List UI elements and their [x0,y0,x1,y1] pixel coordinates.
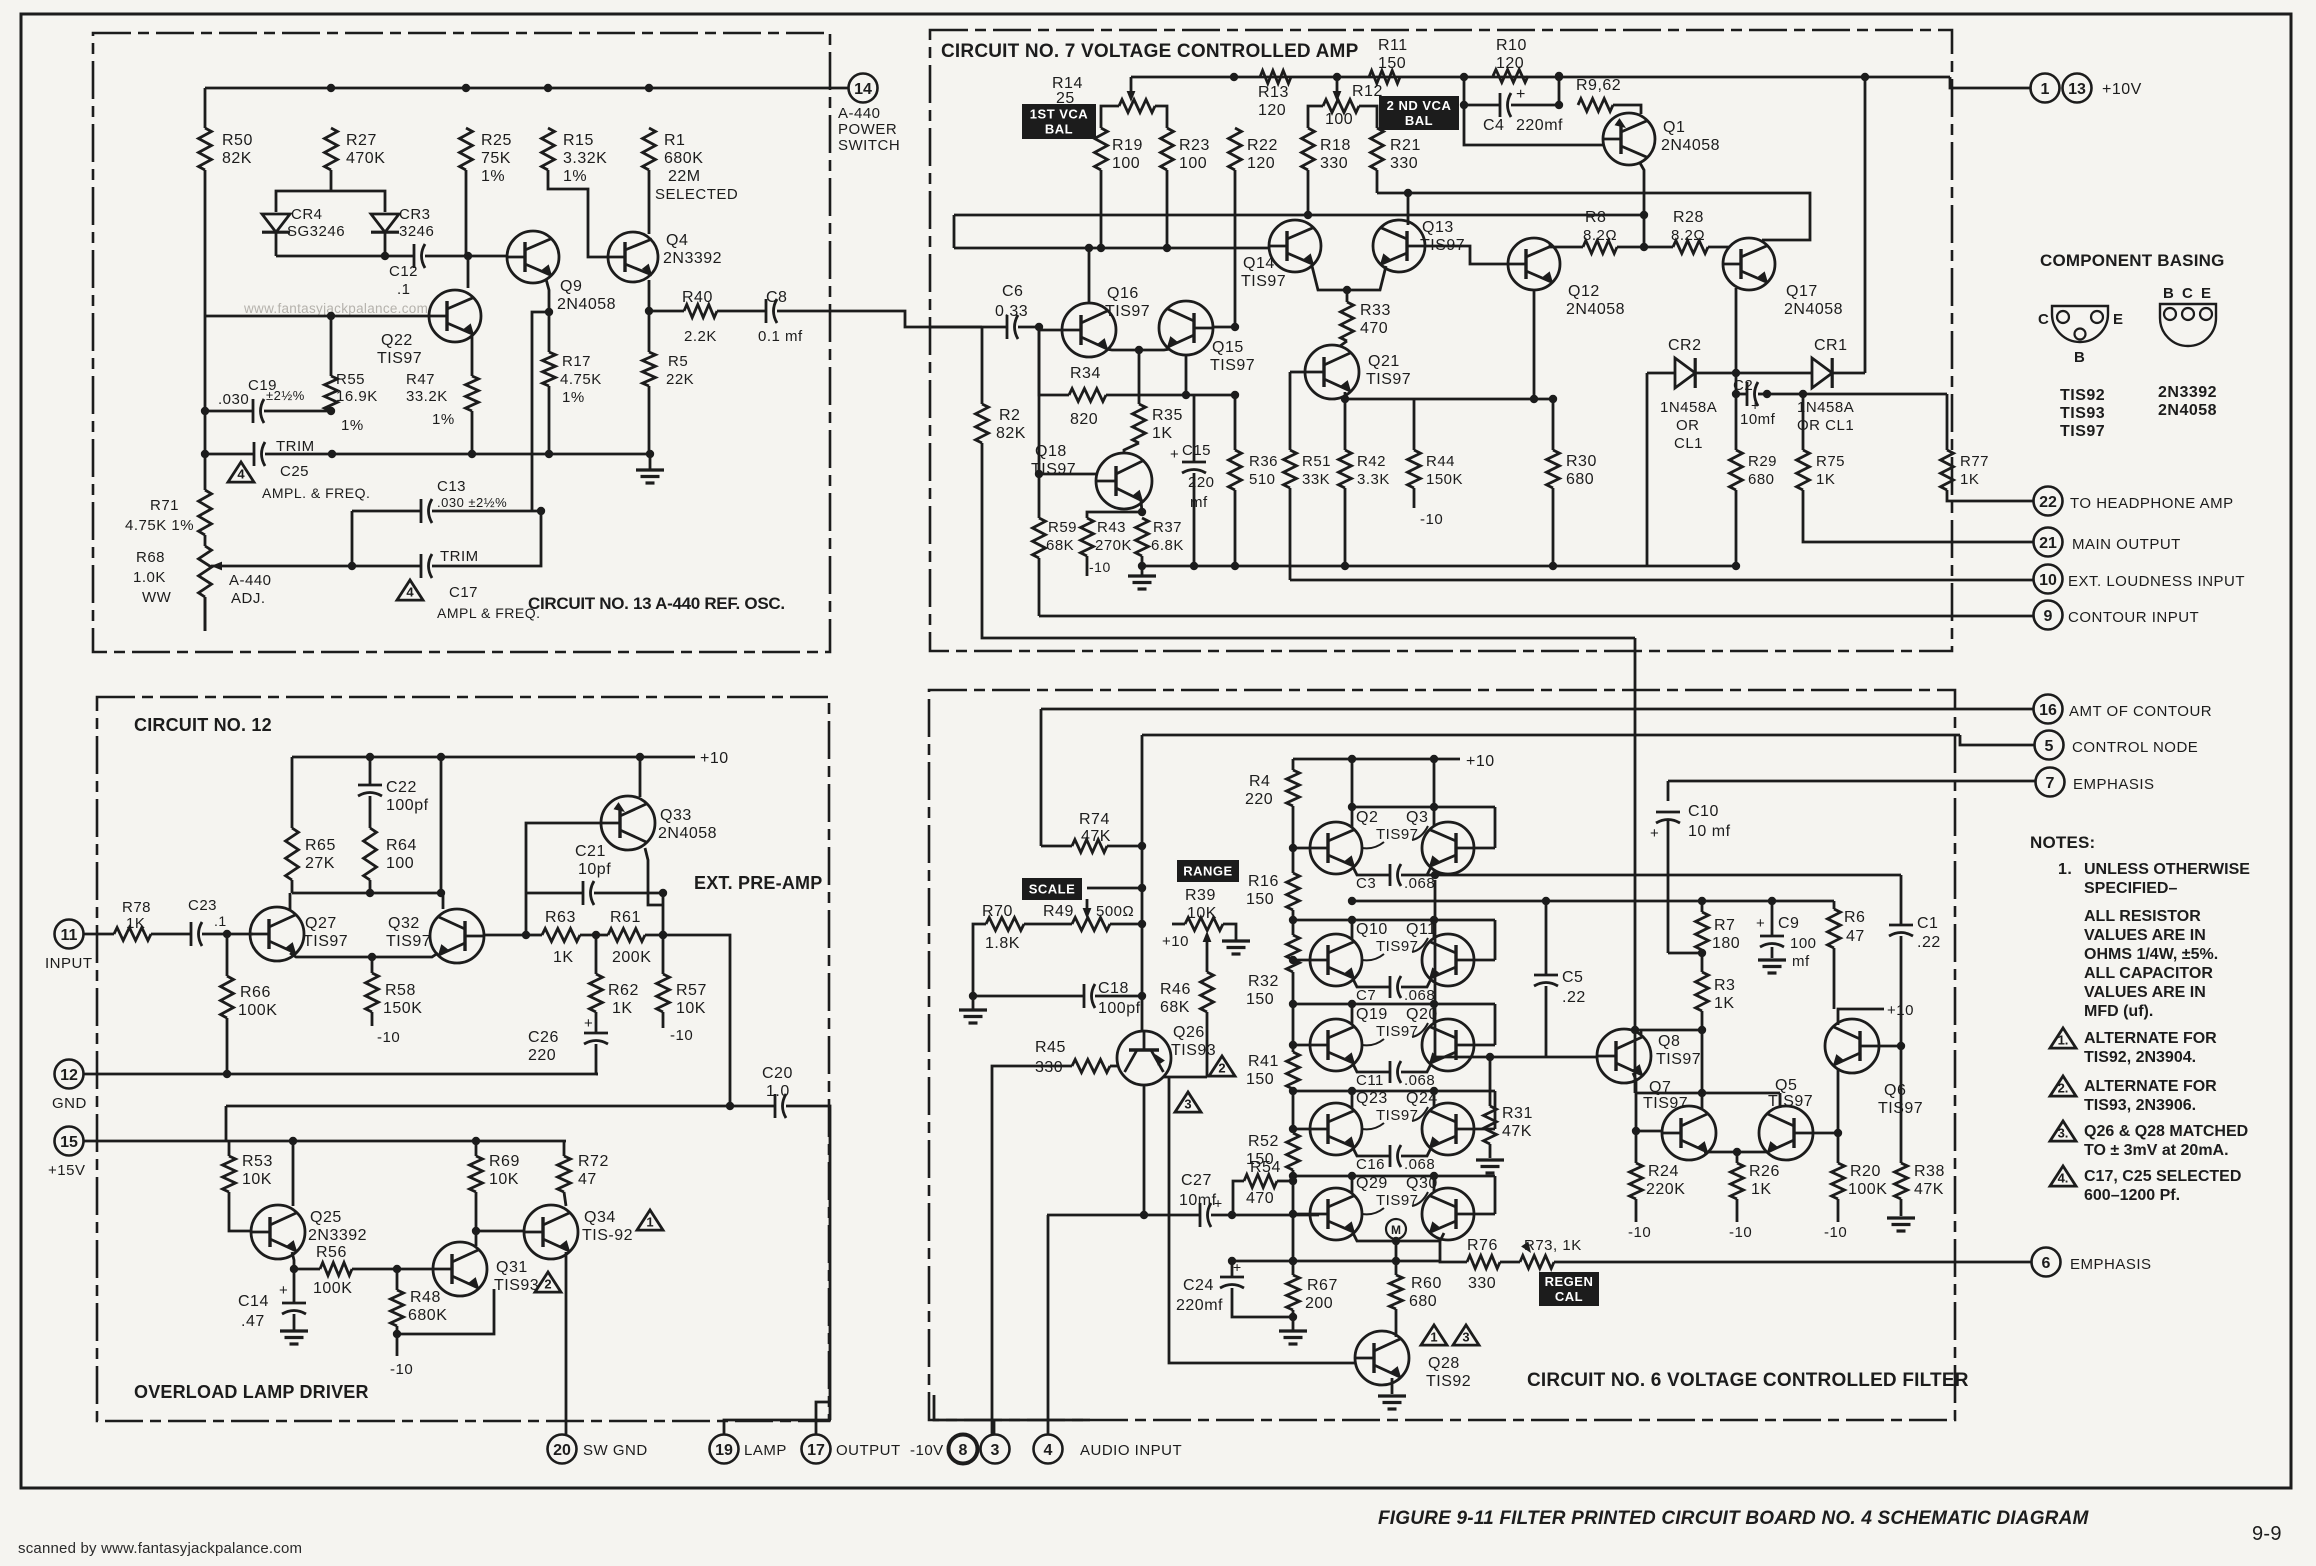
svg-text:R2: R2 [999,407,1020,424]
label RANGE [1177,860,1239,882]
wire: Q12 emitter to R30 [1533,290,1536,399]
svg-text:6.8K: 6.8K [1151,537,1184,554]
transistor Q2 [1310,822,1362,874]
svg-text:R29: R29 [1748,453,1777,470]
svg-text:R60: R60 [1411,1275,1442,1292]
svg-text:Q12: Q12 [1568,283,1600,300]
svg-text:100K: 100K [1848,1181,1887,1198]
svg-text:27K: 27K [305,855,335,872]
svg-text:R6: R6 [1844,909,1865,926]
svg-text:10mf: 10mf [1740,411,1776,428]
svg-text:10mf: 10mf [1179,1192,1217,1209]
svg-text:CONTROL NODE: CONTROL NODE [2072,739,2198,756]
wire: tie rail for Q23/Q24 row [1293,1090,1495,1093]
svg-text:EMPHASIS: EMPHASIS [2073,776,2155,793]
resistor R24 [1635,1131,1638,1163]
svg-text:68K: 68K [1046,537,1074,554]
wire: contour y616 to terminal 9 [1039,615,2033,618]
transistor Q29 [1310,1188,1362,1240]
svg-text:R17: R17 [562,353,591,370]
svg-text:CIRCUIT NO. 6 VOLTAGE CONTROLL: CIRCUIT NO. 6 VOLTAGE CONTROLLED FILTER [1527,1370,1969,1391]
capacitor C17 TRIM [352,565,421,568]
svg-text:R24: R24 [1648,1163,1679,1180]
svg-text:SPECIFIED–: SPECIFIED– [2084,880,2177,897]
wire: contour into R74 [1040,709,1043,846]
resistor R58 [371,957,374,973]
resistor R23 [1161,128,1174,170]
resistor R1 [643,128,656,170]
wire: Q33 base to R63 node [526,823,601,935]
svg-text:2N3392: 2N3392 [308,1227,367,1244]
wire: R27 to diode pair box [330,170,333,191]
wire: R65/R64 bottom tie to Q32 collector [292,892,443,895]
terminal 11 input [55,920,84,949]
svg-text:R42: R42 [1357,453,1386,470]
wire: Q25 collector to +15 rail [292,1141,295,1206]
svg-text:220K: 220K [1646,1181,1685,1198]
svg-text:TO ± 3mV at 20mA.: TO ± 3mV at 20mA. [2084,1142,2229,1159]
svg-text:R11: R11 [1378,37,1408,54]
svg-text:TIS97: TIS97 [1241,273,1286,290]
svg-text:R4: R4 [1249,773,1270,790]
svg-text:Q2: Q2 [1356,809,1378,826]
svg-text:C20: C20 [762,1065,793,1082]
svg-text:Q28: Q28 [1428,1355,1460,1372]
wire: R19 bottom [1100,170,1103,248]
svg-text:C16: C16 [1356,1156,1385,1173]
resistor R55 [330,316,333,376]
svg-text:R36: R36 [1249,453,1278,470]
wire: base Q29 [1293,1213,1310,1216]
svg-text:.1: .1 [214,913,227,929]
wire: C10 column [1698,949,1706,957]
resistor R50 [199,128,212,170]
wire: CR2 left to emitter rail [1646,373,1649,566]
wire: gnd rail y1074 [83,1073,598,1076]
resistor R40 [649,310,684,313]
svg-text:47K: 47K [1081,828,1111,845]
terminal 17 OUTPUT [802,1435,831,1464]
wire: Q31 base [397,1268,433,1271]
resistor R78 [83,933,114,936]
svg-text:1K: 1K [1816,471,1835,488]
svg-text:Q20: Q20 [1406,1006,1438,1023]
svg-text:TIS92, 2N3904.: TIS92, 2N3904. [2084,1049,2196,1066]
svg-text:100: 100 [1112,155,1140,172]
svg-text:100: 100 [1790,935,1817,952]
svg-text:R34: R34 [1070,365,1101,382]
svg-text:1.: 1. [2058,861,2072,878]
svg-text:R13: R13 [1258,84,1289,101]
capacitor C11 [1353,1064,1390,1072]
svg-text:100: 100 [1325,111,1353,128]
resistor R38 [1900,1046,1903,1163]
terminal 8 [949,1435,978,1464]
svg-text:C: C [2182,285,2193,302]
wire: Q9 emitter node to C13/C17 branch [532,312,549,511]
svg-text:R71: R71 [150,497,179,514]
transistor Q25 [251,1205,305,1259]
capacitor C21 [526,892,583,895]
note triangle 4 [2050,1166,2076,1186]
svg-text:1%: 1% [481,168,505,185]
wire: crossover down into circuit 6 [1634,638,1637,1030]
circuit 12 box border [97,697,829,1421]
svg-text:R40: R40 [682,289,713,306]
svg-text:.068: .068 [1404,987,1435,1004]
svg-text:1%: 1% [432,411,455,428]
resistor R18 [1302,128,1315,170]
resistor R26 [1736,1152,1739,1163]
svg-text:Q15: Q15 [1212,339,1244,356]
svg-text:R10: R10 [1496,37,1527,54]
note triangle 2 [2050,1076,2076,1096]
svg-text:C9: C9 [1778,915,1799,932]
svg-text:330: 330 [1035,1059,1063,1076]
svg-text:GND: GND [52,1095,87,1112]
svg-text:R21: R21 [1390,137,1421,154]
svg-text:R75: R75 [1816,453,1845,470]
wire: Q26 emitter to R46 and Q28 base [1163,1076,1207,1079]
svg-text:-10: -10 [1824,1224,1847,1241]
svg-text:C12: C12 [389,263,418,280]
svg-text:16: 16 [2039,702,2057,719]
svg-text:C24: C24 [1183,1277,1214,1294]
svg-text:-10V: -10V [910,1442,944,1459]
wire: Q27/Q32 emitter tie [290,953,438,957]
resistor R9,62 [1578,99,1613,112]
svg-text:Q6: Q6 [1884,1082,1906,1099]
svg-text:MFD (uf).: MFD (uf). [2084,1003,2153,1020]
transistor Q19 [1310,1019,1362,1071]
svg-text:120: 120 [1496,55,1524,72]
svg-text:R35: R35 [1152,407,1183,424]
circuit 7 box border [930,30,1952,651]
capacitor C7 [1353,979,1390,987]
wire: tie rail for Q10/Q11 row [1293,919,1495,922]
svg-text:33.2K: 33.2K [406,388,448,405]
svg-text:68K: 68K [1160,999,1190,1016]
svg-text:+10: +10 [1162,933,1189,950]
svg-text:2N3392: 2N3392 [2158,384,2217,401]
resistor R33 [1346,290,1349,302]
svg-text:4: 4 [237,467,245,482]
svg-text:.030 ±2½%: .030 ±2½% [437,495,507,510]
svg-text:C11: C11 [1356,1072,1384,1089]
svg-text:180: 180 [1712,935,1740,952]
capacitor C9 [1771,899,1774,936]
svg-text:R70: R70 [982,903,1013,920]
svg-text:E: E [2113,311,2124,328]
svg-text:CL1: CL1 [1674,435,1703,452]
svg-text:R30: R30 [1566,453,1597,470]
svg-text:TIS-92: TIS-92 [582,1227,633,1244]
resistor R51 [1289,372,1292,450]
wire: Q22 emitter to R47 [471,335,474,376]
svg-text:Q16: Q16 [1107,285,1139,302]
wire: Q16 collector up to base rail [1088,248,1091,303]
svg-text:R59: R59 [1048,519,1077,536]
circuit 6 box border [929,690,1955,1420]
transistor Q10 [1310,934,1362,986]
svg-text:R67: R67 [1307,1277,1338,1294]
resistor R8 [1583,241,1617,254]
svg-text:AMPL & FREQ.: AMPL & FREQ. [437,605,541,621]
resistor R11 [1369,71,1400,84]
resistor R74 [1072,840,1107,853]
svg-text:4.75K: 4.75K [560,371,602,388]
resistor R30 [1552,399,1555,450]
svg-text:CR3: CR3 [399,206,431,223]
resistor R67 [1287,1275,1300,1310]
TO-92 basing diagram left [2052,306,2108,342]
wire: base rail y248 to Q14 [954,247,1269,250]
circuit 13 box border [93,33,830,652]
svg-text:CIRCUIT NO. 13 A-440 REF. OSC.: CIRCUIT NO. 13 A-440 REF. OSC. [528,594,785,613]
capacitor C1 [1900,875,1903,925]
resistor R3 [1696,972,1709,1011]
svg-text:6: 6 [2042,1255,2051,1272]
svg-text:1K: 1K [126,915,145,932]
svg-text:AMPL. & FREQ.: AMPL. & FREQ. [262,485,370,501]
svg-text:1.8K: 1.8K [985,935,1020,952]
svg-text:Q17: Q17 [1786,283,1818,300]
svg-text:Q34: Q34 [584,1209,616,1226]
svg-text:10: 10 [2039,572,2057,589]
svg-text:R54: R54 [1250,1159,1281,1176]
svg-text:R25: R25 [481,132,512,149]
terminal 15 +15V [55,1127,84,1156]
svg-text:1: 1 [1430,1330,1437,1345]
terminal 13 +10V [2063,74,2092,103]
svg-text:TIS93: TIS93 [494,1277,539,1294]
svg-text:C23: C23 [188,897,217,914]
svg-text:12: 12 [60,1067,78,1084]
ground R39 [1222,939,1250,942]
transistor Q23 [1310,1103,1362,1155]
wire: Q21 base to R51 column [1290,371,1305,374]
svg-text:C15: C15 [1182,442,1211,459]
resistor R71 [199,490,212,535]
terminal 1 [2031,74,2060,103]
wire: R65 column [291,757,294,828]
motor M node circle [1386,1219,1406,1239]
svg-text:9-9: 9-9 [2252,1523,2282,1545]
terminal 10 ext loudness input [2034,565,2063,594]
svg-text:BAL: BAL [1045,122,1073,137]
capacitor C27 [1047,1214,1200,1217]
transistor Q8 [1597,1029,1651,1083]
svg-text:R55: R55 [336,371,365,388]
svg-text:200: 200 [1305,1295,1333,1312]
svg-text:SELECTED: SELECTED [655,186,738,203]
svg-text:0.1 mf: 0.1 mf [758,328,803,345]
resistor R60 [1395,1261,1398,1275]
svg-text:-10: -10 [670,1027,693,1044]
svg-text:SG3246: SG3246 [287,223,345,240]
capacitor C15 [1193,395,1196,462]
svg-text:EXT. PRE-AMP: EXT. PRE-AMP [694,873,822,893]
resistor R31 [1489,1057,1492,1106]
label REGEN CAL [1539,1272,1599,1306]
svg-text:SCALE: SCALE [1029,882,1076,897]
svg-text:R51: R51 [1302,453,1331,470]
svg-text:1N458A: 1N458A [1660,399,1717,416]
svg-text:+: + [1650,825,1659,842]
svg-text:mf: mf [1190,494,1208,511]
svg-text:Q22: Q22 [381,332,413,349]
svg-text:R64: R64 [386,837,417,854]
resistor R37 [1136,518,1149,556]
wire: R5 bottom to ground rail [648,386,651,454]
svg-text:.47: .47 [241,1313,265,1330]
svg-text:.068: .068 [1404,1072,1435,1089]
resistor R27 [325,128,338,170]
svg-text:-10: -10 [1089,559,1111,575]
svg-text:R62: R62 [608,982,639,999]
svg-text:17: 17 [807,1442,825,1459]
bottom border caption rule [28,1487,2291,1490]
svg-text:1K: 1K [1960,471,1979,488]
svg-text:4.75K 1%: 4.75K 1% [125,517,194,534]
capacitor C13 [352,510,421,513]
wire: circuit12 +10 rail [292,756,695,759]
wire: R75 to terminal 21 [1803,490,2033,542]
svg-text:150K: 150K [383,1000,422,1017]
svg-text:1%: 1% [562,389,585,406]
svg-text:TIS93: TIS93 [2060,405,2105,422]
svg-text:R73, 1K: R73, 1K [1524,1237,1582,1254]
svg-text:100K: 100K [238,1002,277,1019]
svg-text:330: 330 [1468,1275,1496,1292]
transistor Q15 [1159,301,1213,355]
resistor R63 [542,929,580,942]
potentiometer R12 2nd VCA bal [1336,77,1339,93]
resistor R75 [1802,394,1805,450]
svg-text:470: 470 [1360,320,1388,337]
svg-text:.22: .22 [1917,934,1941,951]
wire: circuit6 +10 rail [1293,758,1460,761]
svg-text:47K: 47K [1914,1181,1944,1198]
transistor Q31 [433,1242,487,1296]
wire: R51 bottom to ext loudness wire [1289,488,1292,580]
resistor R72 [563,1141,566,1156]
svg-text:VALUES ARE IN: VALUES ARE IN [2084,984,2206,1001]
wire: row1 cap node to Q8 bus feed [1427,874,1435,877]
terminal 7 emphasis [2036,768,2065,797]
transistor Q27 [250,907,304,961]
svg-text:1: 1 [2041,81,2050,98]
wire: circuit13 +10 top rail [205,87,848,90]
svg-text:7: 7 [2046,775,2055,792]
svg-text:BAL: BAL [1405,113,1433,128]
svg-text:-10: -10 [1729,1224,1752,1241]
svg-text:SW GND: SW GND [583,1442,648,1459]
svg-text:A-440: A-440 [838,105,881,122]
svg-text:2: 2 [544,1277,551,1292]
note triangle 3 [2050,1121,2076,1141]
svg-text:1N458A: 1N458A [1797,399,1854,416]
terminal 3 [981,1435,1010,1464]
svg-text:R53: R53 [242,1153,273,1170]
wire: Q21 emitter node y399 [1344,392,1347,399]
wire: output link [816,1402,830,1434]
svg-text:±2½%: ±2½% [266,388,305,403]
wire: C21/R61 node column R57 [662,893,665,974]
svg-text:CIRCUIT NO. 12: CIRCUIT NO. 12 [134,715,272,735]
svg-text:100pf: 100pf [386,797,429,814]
svg-text:POWER: POWER [838,121,897,138]
svg-text:R45: R45 [1035,1039,1066,1056]
svg-text:TO HEADPHONE AMP: TO HEADPHONE AMP [2070,495,2234,512]
svg-text:120: 120 [1258,102,1286,119]
wire: C6 node down to contour input [1038,327,1041,474]
capacitor C25 TRIM row [201,450,209,458]
resistor R15 [542,128,555,170]
svg-text:120: 120 [1247,155,1275,172]
resistor R45 [1072,1060,1110,1073]
svg-text:CIRCUIT NO. 7 VOLTAGE CONTROLL: CIRCUIT NO. 7 VOLTAGE CONTROLLED AMP [941,41,1359,62]
transistor Q1 [1603,113,1655,165]
svg-text:-10: -10 [1628,1224,1651,1241]
wire: Q6 collector +10 stub [1838,1009,1884,1025]
note triangle 4 at C25 [228,462,254,482]
svg-text:1%: 1% [563,168,587,185]
resistor R28 [1673,241,1708,254]
svg-text:TIS97: TIS97 [303,933,348,950]
svg-text:R7: R7 [1714,917,1735,934]
resistor R41 [1289,1000,1297,1008]
wire: node down to Q22 collector [467,256,470,288]
svg-text:Q5: Q5 [1775,1077,1797,1094]
svg-text:150: 150 [1246,991,1274,1008]
svg-text:8: 8 [959,1442,968,1459]
wire: Q18 base left [1039,473,1096,476]
svg-text:+: + [1516,86,1526,103]
svg-text:.068: .068 [1404,1156,1435,1173]
svg-text:REGEN: REGEN [1545,1274,1594,1289]
svg-text:R19: R19 [1112,137,1143,154]
wire: ladder down to R67 [1292,1181,1295,1261]
svg-text:-10: -10 [377,1029,400,1046]
svg-text:R15: R15 [563,132,594,149]
svg-text:C25: C25 [280,463,309,480]
svg-text:+15V: +15V [48,1162,85,1179]
wire: Q18 emitter node [1141,501,1142,512]
svg-text:EXT. LOUDNESS INPUT: EXT. LOUDNESS INPUT [2068,573,2245,590]
svg-text:220: 220 [1245,791,1273,808]
capacitor C3 [1353,867,1390,875]
wire: Q13 collector up [1407,193,1410,225]
resistor R35 [1138,350,1141,404]
resistor R16 [1289,844,1297,852]
svg-text:R28: R28 [1673,209,1704,226]
svg-text:NOTES:: NOTES: [2030,833,2095,852]
wire: node to Q9 base [468,255,507,258]
svg-text:4.: 4. [2058,1171,2069,1186]
svg-text:TIS97: TIS97 [386,933,431,950]
svg-text:Q10: Q10 [1356,921,1388,938]
svg-text:C2: C2 [1733,377,1753,394]
svg-text:R72: R72 [578,1153,609,1170]
svg-text:R39: R39 [1185,887,1216,904]
svg-text:C4: C4 [1483,117,1504,134]
wire: +15 rail [83,1140,566,1143]
wire: y1106 run to C20 [226,1105,775,1108]
svg-text:TRIM: TRIM [276,438,315,455]
svg-text:-10: -10 [390,1361,413,1378]
svg-text:TIS97: TIS97 [1210,357,1255,374]
